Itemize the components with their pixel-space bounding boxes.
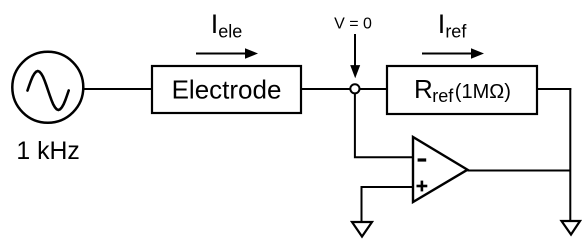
svg-text:Electrode: Electrode xyxy=(172,75,282,105)
svg-text:V = 0: V = 0 xyxy=(334,16,372,33)
svg-text:1 kHz: 1 kHz xyxy=(16,138,79,165)
